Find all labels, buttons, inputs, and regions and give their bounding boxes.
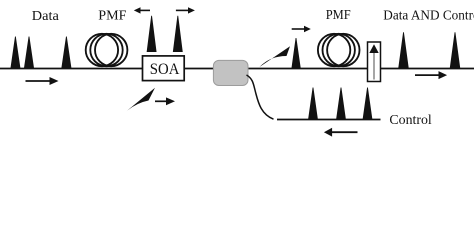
wire main fiber line — [0, 68, 474, 70]
label PMF left — [98, 8, 126, 23]
polarizer / isolator box — [368, 42, 381, 82]
PMF coil left — [86, 34, 128, 66]
arrow right above SOA — [176, 7, 195, 13]
output pulses — [399, 32, 460, 68]
slanted pulse after coupler — [260, 46, 291, 67]
control pulses — [309, 88, 373, 120]
arrow small right below SOA — [155, 97, 175, 105]
arrow output right — [415, 71, 447, 79]
arrow left above SOA — [134, 7, 150, 13]
svg-text:Control: Control — [389, 113, 432, 128]
wire control drop fiber — [247, 75, 274, 119]
data pulses — [11, 37, 71, 69]
svg-text:Data: Data — [32, 9, 60, 24]
counter-propagating pulses above SOA — [147, 16, 182, 52]
PMF coil right — [318, 34, 360, 66]
svg-text:Data AND Control: Data AND Control — [383, 8, 474, 23]
arrow control direction left — [324, 128, 358, 137]
label Control — [389, 113, 432, 128]
vertical pulse after coupler — [292, 38, 300, 68]
svg-text:PMF: PMF — [98, 8, 126, 23]
svg-text:SOA: SOA — [150, 61, 180, 78]
label PMF right — [326, 7, 351, 22]
label Data — [32, 9, 60, 24]
wire control line bottom — [277, 119, 381, 121]
SOA U1 — [143, 56, 185, 81]
label Data AND Control — [383, 8, 474, 23]
slanted control pulse below SOA — [126, 88, 156, 112]
coupler (grey) — [213, 60, 248, 85]
svg-text:PMF: PMF — [326, 7, 351, 22]
arrow data direction right — [26, 77, 59, 85]
arrow right above pulse — [292, 26, 311, 32]
